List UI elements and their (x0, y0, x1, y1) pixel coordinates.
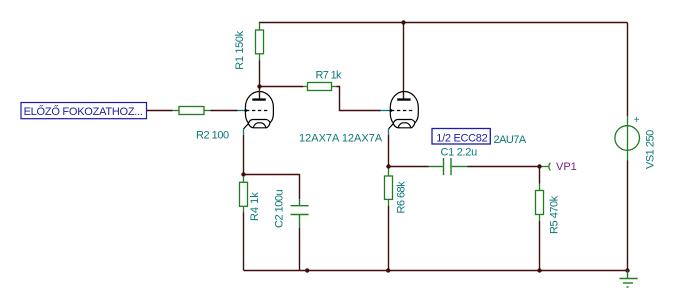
op-amp U2 triode 12AX7A envelope (390, 92, 418, 128)
anode U1 plate bar (252, 98, 265, 100)
svg-text:VS1 250: VS1 250 (645, 130, 657, 169)
ground (620, 271, 638, 288)
wire plate drop to U2 (403, 23, 405, 99)
node R4 top junction (241, 172, 245, 176)
wire C2 to bottom rail (299, 228, 301, 271)
node plate junction U1 (257, 84, 261, 88)
resistor R1 (256, 23, 264, 61)
voltage source VS1 (615, 116, 640, 161)
capacitor C2 (291, 199, 309, 228)
wire cathode junction to C1 (389, 166, 429, 168)
probe VP1 tip (542, 163, 551, 171)
resistor R5 (536, 184, 544, 222)
wire U2 cathode down (389, 124, 394, 129)
node rail dot C2 (305, 268, 309, 272)
wire U1 cathode down (244, 124, 249, 129)
label 1/2 ECC82 box (432, 129, 490, 145)
wire R2 to U1 grid (211, 110, 238, 112)
svg-text:R6 68k: R6 68k (395, 181, 407, 214)
wire R4 to bottom rail (243, 213, 245, 271)
svg-text:C2 100u: C2 100u (274, 190, 286, 228)
svg-text:+: + (634, 115, 640, 126)
wire VS1 to bottom right corner (627, 160, 629, 270)
wire bottom rail (244, 270, 628, 272)
svg-text:C1 2.2u: C1 2.2u (441, 146, 478, 158)
svg-text:R1 150k: R1 150k (234, 30, 246, 69)
wire U1 grid pin stub (238, 110, 246, 112)
resistor R4 (240, 176, 248, 213)
svg-text:VP1: VP1 (556, 161, 577, 173)
node rail dot ground (625, 268, 629, 272)
node rail dot R6 (386, 268, 390, 272)
wire C1 to VP1 junction (468, 166, 540, 168)
grid U1 dashed (246, 110, 269, 112)
node VP1 junction (537, 164, 541, 168)
grid U2 dashed (391, 110, 414, 112)
wire top rail (259, 22, 628, 24)
cathode U1 (248, 120, 270, 128)
wire R5 to bottom rail (539, 221, 541, 271)
label input box ELŐZŐ FOKOZATHOZ (21, 103, 147, 119)
wire R7 to U2 grid (337, 87, 381, 111)
wire VP1 junction to R5 (539, 167, 541, 184)
node rail dot R5 (537, 268, 541, 272)
resistor R2 (173, 107, 211, 115)
wire box to R2 (147, 110, 173, 112)
node top junction (401, 20, 405, 24)
svg-text:R5 470k: R5 470k (549, 195, 561, 234)
anode U2 plate bar (397, 98, 410, 100)
wire right column top (627, 23, 629, 117)
svg-text:1/2 ECC82: 1/2 ECC82 (436, 132, 487, 144)
wire R6 to bottom rail (388, 206, 390, 271)
capacitor C1 (429, 158, 468, 175)
wire junction to R7 (260, 86, 304, 88)
svg-text:R2 100: R2 100 (196, 130, 229, 142)
cathode U2 (393, 120, 415, 128)
node U2 cathode junction (386, 164, 390, 168)
wire R1 bottom to plate junction (259, 61, 261, 87)
op-amp U1 triode 12AX7A envelope (245, 92, 273, 128)
svg-text:12AX7A 12AX7A: 12AX7A 12AX7A (299, 132, 383, 144)
resistor R6 (385, 169, 393, 207)
resistor R7 (303, 83, 337, 91)
svg-text:ELŐZŐ FOKOZATHOZ...: ELŐZŐ FOKOZATHOZ... (24, 104, 143, 118)
wire U2 grid pin stub (381, 110, 391, 112)
svg-text:2AU7A: 2AU7A (494, 134, 527, 146)
svg-text:R4 1k: R4 1k (249, 192, 261, 221)
svg-text:R7 1k: R7 1k (316, 69, 343, 81)
wire junction to C2 (244, 175, 300, 200)
